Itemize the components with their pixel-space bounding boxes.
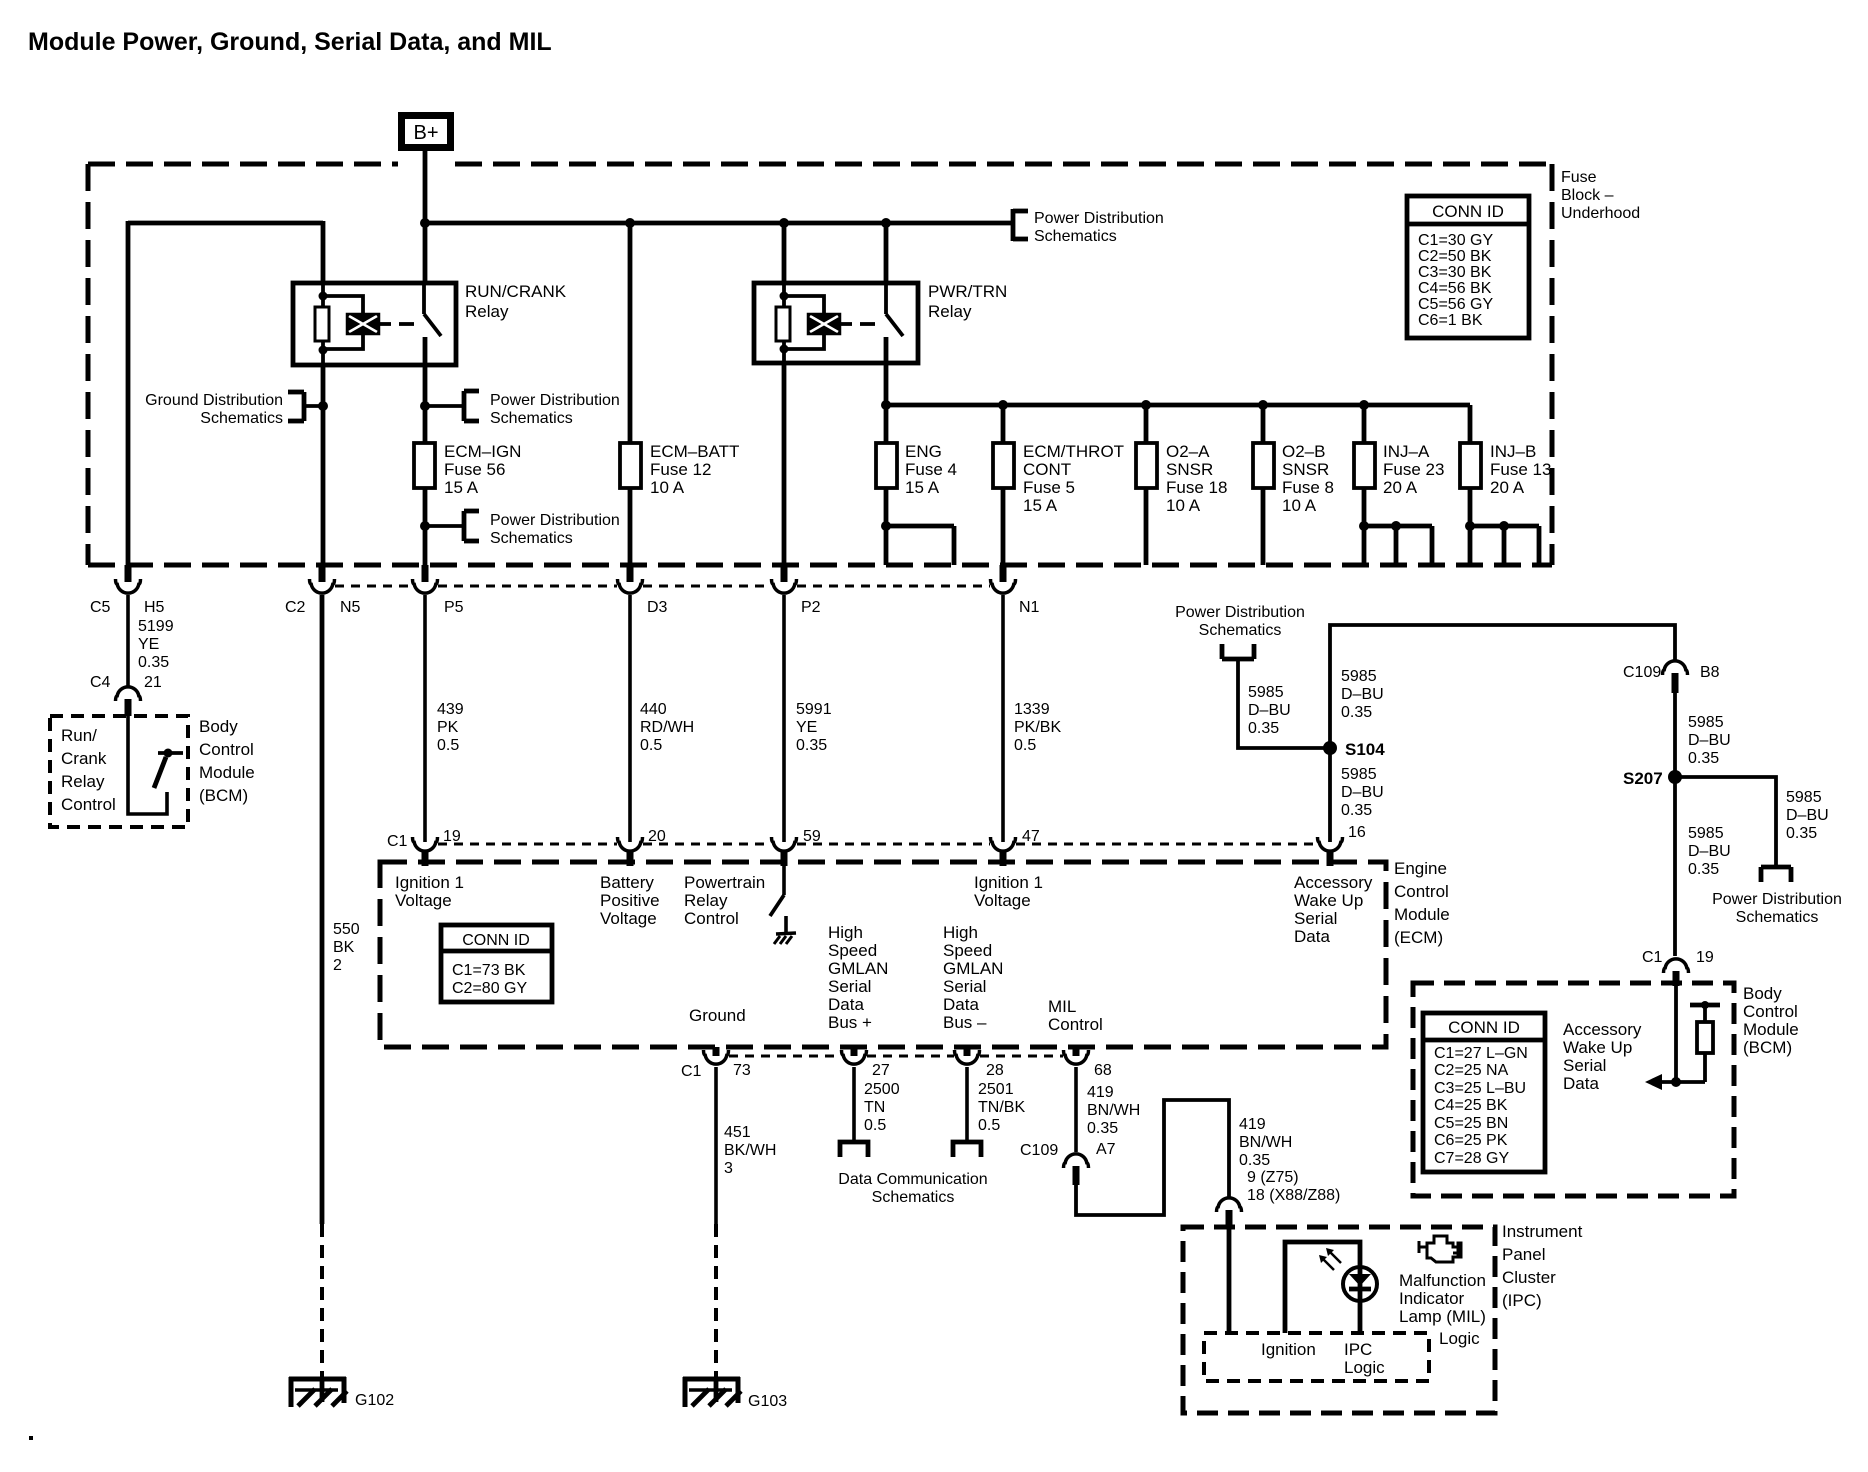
svg-text:9 (Z75): 9 (Z75): [1247, 1169, 1299, 1186]
svg-text:Bus –: Bus –: [943, 1013, 987, 1032]
svg-text:0.35: 0.35: [1688, 750, 1719, 767]
svg-text:Fuse: Fuse: [1561, 169, 1597, 186]
svg-text:20 A: 20 A: [1383, 478, 1418, 497]
svg-text:439: 439: [437, 701, 464, 718]
svg-text:Accessory: Accessory: [1294, 873, 1373, 892]
svg-text:C1: C1: [387, 833, 408, 850]
svg-text:419: 419: [1239, 1116, 1266, 1133]
svg-text:Lamp (MIL): Lamp (MIL): [1399, 1307, 1486, 1326]
svg-text:BN/WH: BN/WH: [1087, 1102, 1140, 1119]
svg-text:BN/WH: BN/WH: [1239, 1134, 1292, 1151]
svg-text:Module: Module: [199, 763, 255, 782]
svg-text:Data: Data: [828, 995, 864, 1014]
svg-text:CONN ID: CONN ID: [462, 932, 530, 949]
svg-text:Power Distribution: Power Distribution: [1034, 210, 1164, 227]
svg-text:73: 73: [733, 1062, 751, 1079]
svg-text:Logic: Logic: [1439, 1329, 1480, 1348]
svg-text:Relay: Relay: [684, 891, 728, 910]
svg-text:0.5: 0.5: [437, 737, 459, 754]
svg-text:C3=30 BK: C3=30 BK: [1418, 264, 1492, 281]
svg-text:BK: BK: [333, 939, 355, 956]
svg-text:59: 59: [803, 828, 821, 845]
svg-text:Relay: Relay: [928, 302, 972, 321]
svg-text:440: 440: [640, 701, 667, 718]
svg-text:Schematics: Schematics: [1736, 909, 1819, 926]
svg-text:Serial: Serial: [1294, 909, 1337, 928]
svg-text:MIL: MIL: [1048, 997, 1076, 1016]
svg-text:Voltage: Voltage: [395, 891, 452, 910]
svg-text:Control: Control: [684, 909, 739, 928]
svg-text:YE: YE: [796, 719, 817, 736]
svg-text:Body: Body: [1743, 984, 1782, 1003]
svg-text:Instrument: Instrument: [1502, 1222, 1583, 1241]
svg-text:47: 47: [1022, 828, 1040, 845]
svg-text:C2=25 NA: C2=25 NA: [1434, 1062, 1509, 1079]
svg-text:C4: C4: [90, 674, 111, 691]
svg-text:0.35: 0.35: [1341, 704, 1372, 721]
svg-text:19: 19: [1696, 949, 1714, 966]
svg-text:20 A: 20 A: [1490, 478, 1525, 497]
svg-text:Ignition 1: Ignition 1: [395, 873, 464, 892]
svg-text:Serial: Serial: [943, 977, 986, 996]
svg-text:Schematics: Schematics: [490, 410, 573, 427]
svg-text:0.35: 0.35: [1239, 1152, 1270, 1169]
svg-text:451: 451: [724, 1124, 751, 1141]
svg-text:Speed: Speed: [943, 941, 992, 960]
svg-text:Control: Control: [1743, 1002, 1798, 1021]
svg-text:Power Distribution: Power Distribution: [490, 392, 620, 409]
svg-text:5985: 5985: [1688, 825, 1724, 842]
svg-text:16: 16: [1348, 824, 1366, 841]
svg-text:Bus +: Bus +: [828, 1013, 872, 1032]
svg-text:Body: Body: [199, 717, 238, 736]
svg-text:0.35: 0.35: [1087, 1120, 1118, 1137]
svg-text:CONN ID: CONN ID: [1448, 1018, 1520, 1037]
svg-text:(BCM): (BCM): [199, 786, 248, 805]
svg-text:C6=1 BK: C6=1 BK: [1418, 312, 1483, 329]
svg-text:10 A: 10 A: [1166, 496, 1201, 515]
svg-text:C3=25 L–BU: C3=25 L–BU: [1434, 1080, 1526, 1097]
svg-text:Underhood: Underhood: [1561, 205, 1640, 222]
svg-text:Schematics: Schematics: [200, 410, 283, 427]
svg-text:Battery: Battery: [600, 873, 654, 892]
svg-text:Data Communication: Data Communication: [838, 1171, 987, 1188]
svg-text:10 A: 10 A: [650, 478, 685, 497]
svg-text:Module: Module: [1743, 1020, 1799, 1039]
svg-text:O2–B: O2–B: [1282, 442, 1325, 461]
svg-text:Data: Data: [943, 995, 979, 1014]
svg-text:C2=50 BK: C2=50 BK: [1418, 248, 1492, 265]
svg-text:S104: S104: [1345, 740, 1385, 759]
svg-text:Ignition 1: Ignition 1: [974, 873, 1043, 892]
svg-text:D–BU: D–BU: [1341, 686, 1384, 703]
svg-text:5985: 5985: [1341, 668, 1377, 685]
svg-text:2501: 2501: [978, 1081, 1014, 1098]
svg-text:Schematics: Schematics: [1199, 622, 1282, 639]
svg-text:0.35: 0.35: [1248, 720, 1279, 737]
svg-text:27: 27: [872, 1062, 890, 1079]
svg-text:Voltage: Voltage: [600, 909, 657, 928]
svg-text:(ECM): (ECM): [1394, 928, 1443, 947]
svg-text:O2–A: O2–A: [1166, 442, 1210, 461]
svg-text:High: High: [828, 923, 863, 942]
svg-text:5985: 5985: [1688, 714, 1724, 731]
svg-text:Powertrain: Powertrain: [684, 873, 765, 892]
svg-text:5991: 5991: [796, 701, 832, 718]
svg-text:Run/: Run/: [61, 726, 97, 745]
svg-text:D–BU: D–BU: [1341, 784, 1384, 801]
svg-text:C5=56 GY: C5=56 GY: [1418, 296, 1493, 313]
svg-text:18 (X88/Z88): 18 (X88/Z88): [1247, 1187, 1340, 1204]
svg-text:Panel: Panel: [1502, 1245, 1545, 1264]
svg-text:Control: Control: [1048, 1015, 1103, 1034]
svg-text:ECM–IGN: ECM–IGN: [444, 442, 521, 461]
svg-text:21: 21: [144, 674, 162, 691]
svg-text:Control: Control: [61, 795, 116, 814]
svg-text:Relay: Relay: [465, 302, 509, 321]
svg-text:Voltage: Voltage: [974, 891, 1031, 910]
svg-text:C7=28 GY: C7=28 GY: [1434, 1150, 1509, 1167]
svg-text:INJ–A: INJ–A: [1383, 442, 1430, 461]
svg-text:68: 68: [1094, 1062, 1112, 1079]
svg-text:C2: C2: [285, 599, 306, 616]
svg-text:P2: P2: [801, 599, 821, 616]
svg-text:0.35: 0.35: [1341, 802, 1372, 819]
svg-text:GMLAN: GMLAN: [828, 959, 888, 978]
svg-text:550: 550: [333, 921, 360, 938]
svg-text:ECM–BATT: ECM–BATT: [650, 442, 739, 461]
svg-text:15 A: 15 A: [444, 478, 479, 497]
svg-text:Control: Control: [199, 740, 254, 759]
svg-text:Module: Module: [1394, 905, 1450, 924]
svg-text:Fuse 56: Fuse 56: [444, 460, 505, 479]
svg-text:Fuse 13: Fuse 13: [1490, 460, 1551, 479]
svg-text:B8: B8: [1700, 664, 1720, 681]
svg-text:5985: 5985: [1786, 789, 1822, 806]
svg-text:Relay: Relay: [61, 772, 105, 791]
svg-text:19: 19: [443, 828, 461, 845]
svg-text:C1=73 BK: C1=73 BK: [452, 962, 526, 979]
svg-text:BK/WH: BK/WH: [724, 1142, 776, 1159]
svg-text:D–BU: D–BU: [1786, 807, 1829, 824]
svg-text:Indicator: Indicator: [1399, 1289, 1465, 1308]
svg-text:419: 419: [1087, 1084, 1114, 1101]
svg-text:Schematics: Schematics: [490, 530, 573, 547]
svg-text:C5=25 BN: C5=25 BN: [1434, 1115, 1508, 1132]
svg-text:PK: PK: [437, 719, 459, 736]
svg-text:Fuse 5: Fuse 5: [1023, 478, 1075, 497]
svg-text:YE: YE: [138, 636, 159, 653]
svg-text:SNSR: SNSR: [1166, 460, 1213, 479]
svg-text:Power Distribution: Power Distribution: [1712, 891, 1842, 908]
svg-text:SNSR: SNSR: [1282, 460, 1329, 479]
svg-text:Block –: Block –: [1561, 187, 1614, 204]
svg-text:0.35: 0.35: [138, 654, 169, 671]
svg-text:N5: N5: [340, 599, 361, 616]
svg-text:3: 3: [724, 1160, 733, 1177]
svg-text:A7: A7: [1096, 1141, 1116, 1158]
svg-text:Logic: Logic: [1344, 1358, 1385, 1377]
svg-text:B+: B+: [413, 122, 438, 144]
svg-text:5985: 5985: [1341, 766, 1377, 783]
svg-text:5199: 5199: [138, 618, 174, 635]
svg-text:20: 20: [648, 828, 666, 845]
svg-text:0.5: 0.5: [1014, 737, 1036, 754]
svg-text:RD/WH: RD/WH: [640, 719, 694, 736]
svg-text:Wake Up: Wake Up: [1563, 1038, 1632, 1057]
svg-text:C1=30 GY: C1=30 GY: [1418, 232, 1493, 249]
svg-text:Serial: Serial: [828, 977, 871, 996]
svg-text:Engine: Engine: [1394, 859, 1447, 878]
svg-text:ECM/THROT: ECM/THROT: [1023, 442, 1124, 461]
svg-text:28: 28: [986, 1062, 1004, 1079]
svg-text:IPC: IPC: [1344, 1340, 1372, 1359]
svg-text:TN: TN: [864, 1099, 885, 1116]
svg-text:Fuse 23: Fuse 23: [1383, 460, 1444, 479]
svg-text:C6=25 PK: C6=25 PK: [1434, 1132, 1508, 1149]
svg-text:Schematics: Schematics: [872, 1189, 955, 1206]
svg-text:1339: 1339: [1014, 701, 1050, 718]
svg-text:Fuse 18: Fuse 18: [1166, 478, 1227, 497]
svg-text:TN/BK: TN/BK: [978, 1099, 1025, 1116]
svg-text:N1: N1: [1019, 599, 1040, 616]
svg-text:Data: Data: [1563, 1074, 1599, 1093]
svg-text:CONN ID: CONN ID: [1432, 202, 1504, 221]
svg-text:Serial: Serial: [1563, 1056, 1606, 1075]
svg-text:PK/BK: PK/BK: [1014, 719, 1061, 736]
svg-text:0.5: 0.5: [640, 737, 662, 754]
svg-text:H5: H5: [144, 599, 165, 616]
svg-text:C5: C5: [90, 599, 111, 616]
svg-text:C4=25 BK: C4=25 BK: [1434, 1097, 1508, 1114]
svg-text:Power Distribution: Power Distribution: [1175, 604, 1305, 621]
svg-text:S207: S207: [1623, 769, 1663, 788]
svg-text:0.35: 0.35: [1786, 825, 1817, 842]
svg-text:15 A: 15 A: [1023, 496, 1058, 515]
svg-text:Schematics: Schematics: [1034, 228, 1117, 245]
svg-text:Ground: Ground: [689, 1006, 746, 1025]
svg-text:10 A: 10 A: [1282, 496, 1317, 515]
svg-text:0.35: 0.35: [1688, 861, 1719, 878]
svg-text:D3: D3: [647, 599, 668, 616]
svg-text:0.35: 0.35: [796, 737, 827, 754]
svg-text:C1: C1: [681, 1063, 702, 1080]
svg-text:C1=27 L–GN: C1=27 L–GN: [1434, 1045, 1528, 1062]
svg-text:G102: G102: [355, 1392, 394, 1409]
svg-text:INJ–B: INJ–B: [1490, 442, 1536, 461]
svg-text:RUN/CRANK: RUN/CRANK: [465, 282, 567, 301]
svg-text:PWR/TRN: PWR/TRN: [928, 282, 1007, 301]
svg-text:C109: C109: [1623, 664, 1661, 681]
svg-text:5985: 5985: [1248, 684, 1284, 701]
svg-text:Malfunction: Malfunction: [1399, 1271, 1486, 1290]
svg-text:CONT: CONT: [1023, 460, 1071, 479]
svg-text:2: 2: [333, 957, 342, 974]
svg-text:C4=56 BK: C4=56 BK: [1418, 280, 1492, 297]
svg-text:P5: P5: [444, 599, 464, 616]
svg-text:C109: C109: [1020, 1142, 1058, 1159]
svg-text:0.5: 0.5: [978, 1117, 1000, 1134]
svg-text:0.5: 0.5: [864, 1117, 886, 1134]
svg-text:ENG: ENG: [905, 442, 942, 461]
svg-text:Data: Data: [1294, 927, 1330, 946]
svg-text:Speed: Speed: [828, 941, 877, 960]
svg-text:Ground Distribution: Ground Distribution: [145, 392, 283, 409]
svg-text:Module Power, Ground, Serial D: Module Power, Ground, Serial Data, and M…: [28, 28, 552, 56]
svg-text:Fuse 4: Fuse 4: [905, 460, 957, 479]
svg-text:D–BU: D–BU: [1688, 732, 1731, 749]
svg-text:Ignition: Ignition: [1261, 1340, 1316, 1359]
svg-text:Fuse 12: Fuse 12: [650, 460, 711, 479]
svg-text:Wake Up: Wake Up: [1294, 891, 1363, 910]
svg-text:G103: G103: [748, 1393, 787, 1410]
svg-text:Control: Control: [1394, 882, 1449, 901]
svg-text:Power Distribution: Power Distribution: [490, 512, 620, 529]
svg-text:(BCM): (BCM): [1743, 1038, 1792, 1057]
svg-text:GMLAN: GMLAN: [943, 959, 1003, 978]
svg-text:(IPC): (IPC): [1502, 1291, 1542, 1310]
svg-text:Cluster: Cluster: [1502, 1268, 1556, 1287]
svg-text:D–BU: D–BU: [1688, 843, 1731, 860]
svg-text:15 A: 15 A: [905, 478, 940, 497]
svg-text:Crank: Crank: [61, 749, 107, 768]
svg-text:High: High: [943, 923, 978, 942]
svg-text:2500: 2500: [864, 1081, 900, 1098]
svg-text:Fuse 8: Fuse 8: [1282, 478, 1334, 497]
svg-text:C1: C1: [1642, 949, 1663, 966]
svg-text:Positive: Positive: [600, 891, 660, 910]
svg-text:C2=80 GY: C2=80 GY: [452, 980, 527, 997]
svg-text:D–BU: D–BU: [1248, 702, 1291, 719]
svg-text:Accessory: Accessory: [1563, 1020, 1642, 1039]
